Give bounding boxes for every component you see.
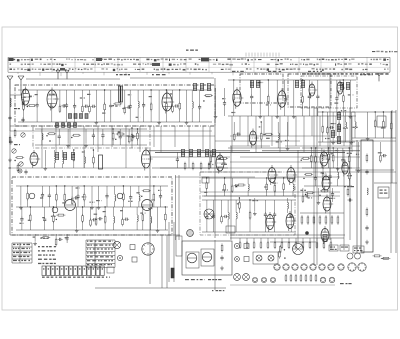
wire rung [382,112,384,121]
wire rung [21,221,23,230]
resistor [307,215,309,225]
capacitor [76,194,79,199]
resistor [310,154,312,163]
tube base diagram [283,264,289,270]
resistor [313,215,315,225]
tube V17 [142,200,153,211]
ground [275,114,279,118]
tuner enclosure [15,85,215,126]
resistor [210,154,212,163]
wire rung [44,150,46,166]
small box sync top [202,177,209,183]
resistor [283,182,285,191]
label text [276,141,282,142]
capacitor [36,103,39,108]
wire rung [235,200,237,212]
wire vertical [395,110,397,253]
wire rung [224,178,226,185]
legend callout ticks [18,72,384,76]
resistor [239,241,241,249]
wire drop [309,238,311,242]
wire rung [206,178,208,183]
resistor [285,274,287,282]
tube V22 [202,252,212,262]
coil [293,184,294,191]
wire rung [390,129,392,138]
resistor [150,102,152,111]
wire rung [332,148,334,155]
control knob [117,255,122,260]
switch [132,257,137,262]
wire rung [172,90,174,106]
wire vertical [214,240,216,290]
ground [258,114,262,118]
resistor [192,162,194,171]
wire rung [74,90,76,105]
junction [284,249,285,250]
wire bus [8,167,150,169]
label text [360,74,373,75]
label text [38,254,55,255]
coil [338,172,339,179]
label text [14,108,20,109]
tube Vvol [30,150,40,168]
wire rung [191,90,193,102]
label text [136,117,141,118]
wire rung [113,207,115,216]
wire rung [329,178,331,186]
audio enclosure [12,177,172,235]
wire rung [52,207,54,216]
wire drop [202,126,204,152]
wire rung [254,198,256,211]
potentiometer [12,149,16,153]
ground [97,205,101,209]
resistor [14,128,16,137]
wire rung [249,200,251,213]
label text [76,187,80,188]
resistor [305,274,307,282]
wire rung [186,90,188,120]
capacitor [92,133,95,138]
wire rung [131,140,133,148]
capacitor [331,192,334,197]
wire rung [73,150,75,155]
resistor [337,215,339,225]
label text [80,97,85,98]
resistor [93,156,95,165]
wire rung [150,90,152,104]
wire rung [137,139,139,145]
resistor [112,132,114,141]
resistor [41,237,50,239]
label box [340,245,349,251]
wire rung [390,112,392,123]
IF transformer [301,81,304,88]
resistor [300,274,302,282]
capacitor [223,215,228,218]
wire rung [142,207,144,215]
wire drop [335,116,337,136]
resistor [295,241,297,249]
resistor [374,119,376,128]
coil [63,157,64,164]
antenna [7,76,13,89]
IF transformer [71,153,74,160]
ground [286,146,290,150]
label text [21,97,26,98]
wire rung [137,108,139,122]
coil [139,195,140,202]
wire drop [239,116,241,136]
label text [325,138,329,139]
resistor [200,162,202,171]
resistor [116,133,125,135]
IF transformer [337,113,340,120]
wire rung [64,186,66,195]
ground [84,143,88,147]
wire rung [179,90,181,103]
capacitor [43,217,46,222]
resistor [72,134,81,136]
wire drop [319,116,321,146]
resistor [315,274,317,282]
wire rung [66,240,68,243]
resistor [137,131,139,140]
label text [122,108,125,109]
capacitor [119,135,122,140]
wire rung [42,186,44,194]
wire rung [233,122,235,134]
wire drop [83,126,85,168]
resistor [315,155,317,164]
resistor [383,120,385,129]
wire drop [55,126,57,152]
capacitor [126,106,131,109]
resistor [381,257,390,259]
wire rung [290,217,292,232]
capacitor [101,133,104,138]
wire rung [44,207,46,218]
tube base diagram [270,277,275,282]
wire rung [321,148,323,154]
wire rung [213,200,215,215]
wire rung [83,150,85,157]
wire rung [98,186,100,205]
wire rung [114,186,116,195]
wire rung [206,219,208,232]
wire rung [95,207,97,219]
wire rung [344,129,346,142]
IF transformer [256,81,259,88]
wire rung [308,98,310,116]
resistor [89,105,91,114]
wire top feed [26,78,120,80]
label text [87,252,112,253]
label text [13,248,30,249]
resistor [22,98,24,107]
label text [49,94,54,95]
resistor [142,190,151,192]
wire vertical [343,150,345,250]
wire bus [230,161,320,163]
wire rung [259,80,261,114]
capacitor [159,194,162,199]
wire rung [215,88,217,114]
resistor [302,95,304,104]
ground [95,120,99,124]
label text [341,247,348,248]
wire bus [200,171,280,173]
wire rung [267,102,269,116]
wire rung [114,201,116,207]
label text [185,279,205,280]
wire rung [277,122,279,133]
wire bus [200,191,340,193]
capacitor [308,94,311,99]
label text [341,110,346,111]
wire rung [83,163,85,168]
wire rail sync dense [302,147,352,149]
wire rung [227,200,229,213]
wire rung [176,161,178,168]
wire rail sync dense [302,167,352,169]
wire vertical pair2 [168,222,170,282]
wire drop [69,126,71,147]
wire rail IF strip [228,79,356,81]
tube V18 [266,212,276,232]
wire rung [199,90,201,106]
label text [49,140,52,141]
wire rung [332,112,334,140]
wire rung [153,186,155,194]
wire rung [286,198,288,202]
antenna [56,70,60,79]
capacitor [273,212,276,217]
wire drop [247,116,249,146]
wire rung [302,188,304,196]
wire rung [290,200,292,214]
wire rung [89,90,91,106]
wire rung [51,108,53,122]
capacitor [73,104,76,109]
resistor [349,171,351,180]
ground [220,266,224,270]
wire vertical [214,78,216,238]
resistor [219,157,228,159]
deflection coupler [293,244,304,255]
wire rung [66,107,68,122]
ticks above strip [246,53,279,57]
wire rung [328,160,330,168]
wire rung [106,186,108,195]
dark bar [171,268,174,278]
wire drop [263,116,265,136]
wire rung [82,207,84,216]
tube V21 [187,253,197,263]
wire vertical [297,150,299,244]
ground [349,140,353,144]
bold cells [201,58,209,62]
IF transformer [200,84,203,91]
label text [38,250,56,251]
wire rung [21,207,23,218]
wire rung [82,221,84,230]
wire rail sync hot [318,141,355,143]
capacitor [234,184,239,187]
IF transformer [331,131,334,138]
wire rung [23,109,25,122]
wire rung [66,90,68,104]
wire rung [283,178,285,184]
wire drop [295,238,297,242]
wire rung [110,90,112,105]
wire rung [110,107,112,122]
resistor [27,192,29,201]
coil [54,156,55,163]
label text [148,208,152,209]
coil [137,215,138,222]
label text [231,112,235,113]
wire rung [42,197,44,207]
small box right [377,116,386,127]
label text [221,164,227,165]
resistor [290,274,292,282]
wire rung [344,112,346,122]
label text [232,71,246,72]
wire rung [342,101,344,116]
capacitor [129,195,132,200]
capacitor [124,218,129,221]
wire rung [310,148,312,156]
label text [330,247,335,248]
ground [8,158,12,162]
wire rail mid sparse [152,167,228,169]
control knob [234,243,239,248]
wire rung [95,90,97,120]
capacitor [131,135,136,138]
capacitor [329,126,334,129]
wire rung [104,90,106,104]
wire rung [260,139,262,148]
resistor [179,102,181,111]
ground [157,120,161,124]
wire rung [92,150,94,157]
capacitor [341,158,344,163]
resistor [131,133,133,142]
ground [75,228,79,232]
resistor [27,105,36,107]
coil [236,212,237,219]
wire rail tuner [18,89,212,91]
wire rung [137,90,139,101]
wire rung [235,219,237,232]
label text [65,237,68,238]
capacitor [8,115,11,120]
wire rung [119,129,121,136]
wire drop [41,126,43,168]
wire rung [342,148,344,159]
IF transformer [337,137,340,144]
label text [308,71,322,72]
label text [334,103,338,104]
capacitor [24,169,27,174]
capacitor [176,157,179,162]
label text [13,252,30,253]
tube base diagram [338,264,344,270]
label box [378,187,389,198]
wire rung [332,196,334,202]
wire rung [199,109,201,122]
label text [115,106,120,107]
label text [343,128,348,129]
wire rail sync hot [318,111,355,113]
wire rung [122,186,124,194]
capacitor [92,218,97,221]
ground [292,114,296,118]
wire rail sync box up [202,177,296,179]
resistor [82,105,84,114]
tube V10 [268,165,278,185]
label text [103,211,106,212]
wire rung [274,200,276,213]
wire rung [367,112,369,136]
wire rung [227,219,229,232]
label text [264,186,268,187]
resistor [391,122,393,131]
resistor [310,274,312,282]
resistor [302,194,304,203]
wire rung [137,129,139,133]
wire drop [125,126,127,168]
wire rung [342,162,344,169]
wire rail sync box low [202,231,296,233]
wire rung [143,90,145,104]
wire rung [260,122,262,134]
capacitor [365,169,368,174]
wire rung [251,98,253,116]
resistor [319,215,321,225]
label text [272,183,277,184]
label text [87,260,113,261]
resistor [237,184,246,186]
label text [381,127,386,128]
resistor [301,157,310,159]
wire rung [274,178,276,186]
wire drop [267,238,269,242]
wire rail audio upper [16,206,168,208]
wire rung [322,112,324,127]
label text [128,201,132,202]
label text [258,82,263,83]
wire rung [36,90,38,104]
wire rung [337,168,339,172]
wire rung [277,140,279,148]
wire rung [342,80,344,96]
wire rung [374,127,376,139]
transistor T1 [29,193,35,199]
ground [33,241,37,245]
wire rung [382,127,384,138]
wire rung [292,178,294,184]
wire rung [81,90,83,106]
resistor [309,241,311,249]
wire rung [83,186,85,194]
coil [42,133,43,140]
tube base diagram [348,263,356,271]
label text [285,140,289,141]
wire rung [71,186,73,198]
